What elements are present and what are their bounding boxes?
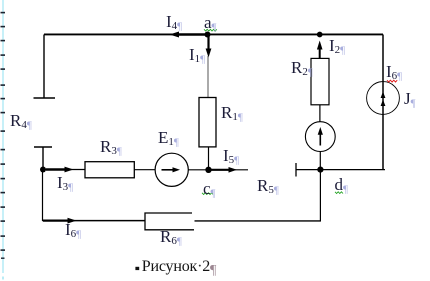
- squiggle under d (green): [335, 192, 343, 194]
- wire: I1 arrow to R1 top (faint): [207, 56, 209, 98]
- wire: R2 bottom to source E2: [319, 105, 321, 122]
- label R6: [160, 228, 182, 247]
- wire: lower bar stem to left node: [42, 147, 44, 170]
- node: R2 branch top junction: [317, 32, 323, 38]
- squiggle under I6 right label (red): [387, 80, 397, 82]
- wire: E1 to node c: [188, 169, 208, 171]
- label R2: [291, 59, 313, 78]
- arrow I4 on top bus pointing left: [170, 32, 208, 38]
- ruler ticks: [1, 12, 6, 259]
- wire: node c toward R5 with I5 arrow: [209, 167, 249, 173]
- terminal bar upper (R4 branch): [34, 97, 56, 99]
- label d: [335, 176, 348, 195]
- wire: R1 bottom to node c: [208, 147, 210, 170]
- squiggle under c (green): [202, 193, 213, 195]
- wire: R3 to E1: [134, 169, 155, 171]
- wire: right branch from top bus down to d level: [382, 35, 384, 170]
- caption Рисунок 2: [142, 259, 216, 278]
- terminal bar left of node d (R5 branch): [295, 163, 297, 177]
- arrow I1 from node a downward: [206, 36, 212, 58]
- node c: [205, 167, 211, 173]
- label R3: [100, 138, 122, 157]
- wire: left node to R3 with I3 arrow: [43, 167, 85, 173]
- node d: [317, 167, 323, 173]
- wire: R5 terminal to node d to right branch: [296, 169, 385, 171]
- label R5: [257, 177, 279, 196]
- label J: [404, 90, 416, 109]
- caption bullet: [135, 267, 139, 270]
- label R4: [10, 112, 32, 131]
- emf source E2 (circle with up arrow): [305, 122, 335, 152]
- current source J (circle, wire through, double arrowheads): [367, 82, 400, 115]
- label E1: [158, 129, 179, 148]
- label I6 (right, with red squiggle): [386, 63, 402, 82]
- node: left junction: [40, 167, 46, 173]
- arrow I2 pointing up toward top bus: [317, 41, 323, 59]
- label c: [203, 180, 216, 199]
- wire: node d down to bottom bus: [319, 170, 321, 222]
- label I6 (bottom): [65, 221, 81, 240]
- resistor R1: [199, 98, 216, 147]
- resistor R2: [311, 58, 329, 104]
- wire: bottom bus left segment with I6 arrow: [43, 218, 146, 224]
- label I5: [223, 147, 239, 166]
- squiggle under a (green): [204, 29, 217, 31]
- node a: [205, 32, 211, 38]
- wire: left branch drop to R4 upper terminal: [43, 35, 45, 99]
- label I3: [57, 174, 73, 193]
- label I1: [189, 46, 205, 65]
- label I2: [329, 37, 345, 56]
- resistor R6 (open right side): [145, 213, 194, 230]
- emf source E1 (circle with right arrow): [155, 153, 188, 186]
- label I4: [166, 13, 182, 32]
- wire: E2 bottom to node d: [319, 152, 321, 170]
- label R1: [221, 104, 243, 123]
- label a: [204, 14, 217, 33]
- resistor R3: [85, 162, 134, 178]
- terminal bar lower (R4 branch): [34, 146, 52, 148]
- wire: top bus from left corner to right corner: [44, 33, 383, 35]
- ruler line (left cyan boundary): [2, 0, 4, 280]
- wire: left node down to bottom bus: [42, 170, 44, 222]
- wire: bottom bus right segment: [195, 220, 321, 222]
